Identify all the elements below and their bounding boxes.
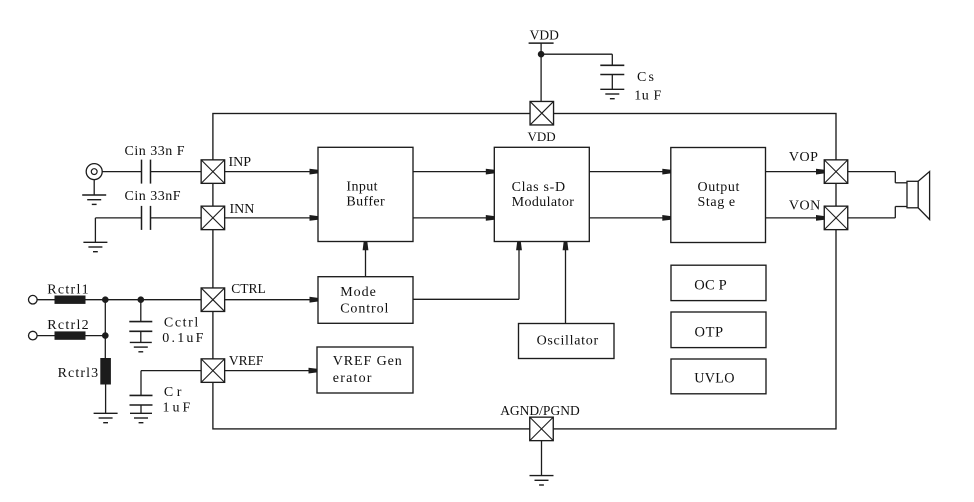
- svg-text:VREF Gen: VREF Gen: [333, 354, 403, 369]
- svg-text:Cin 33n F: Cin 33n F: [125, 144, 186, 159]
- svg-text:Oscillator: Oscillator: [537, 334, 599, 349]
- svg-text:VOP: VOP: [789, 150, 819, 165]
- svg-text:Modulator: Modulator: [512, 195, 575, 210]
- svg-text:Control: Control: [340, 302, 389, 317]
- svg-text:1u F: 1u F: [634, 89, 662, 104]
- svg-text:Cs: Cs: [637, 70, 656, 85]
- svg-text:VDD: VDD: [528, 129, 556, 144]
- svg-text:Output: Output: [698, 180, 741, 195]
- svg-text:Cr: Cr: [164, 385, 185, 400]
- svg-text:Clas s-D: Clas s-D: [512, 180, 566, 195]
- svg-text:Input: Input: [346, 180, 378, 195]
- svg-text:UVLO: UVLO: [694, 371, 735, 387]
- svg-text:erator: erator: [333, 371, 373, 386]
- svg-text:1uF: 1uF: [163, 401, 194, 416]
- svg-text:Stag e: Stag e: [698, 195, 736, 210]
- svg-text:VON: VON: [789, 199, 821, 214]
- svg-text:Rctrl3: Rctrl3: [58, 366, 100, 381]
- svg-text:Rctrl1: Rctrl1: [47, 282, 90, 297]
- svg-text:Buffer: Buffer: [346, 195, 385, 210]
- svg-text:INN: INN: [230, 202, 255, 217]
- svg-text:CTRL: CTRL: [231, 281, 266, 296]
- svg-text:Cin 33nF: Cin 33nF: [125, 189, 182, 204]
- svg-text:Cctrl: Cctrl: [164, 316, 200, 331]
- svg-text:0.1uF: 0.1uF: [162, 331, 205, 346]
- svg-text:Mode: Mode: [340, 285, 377, 300]
- svg-text:AGND/PGND: AGND/PGND: [500, 403, 580, 418]
- svg-text:INP: INP: [229, 155, 252, 170]
- svg-text:Rctrl2: Rctrl2: [47, 318, 90, 333]
- svg-text:VDD: VDD: [530, 27, 559, 42]
- svg-text:VREF: VREF: [229, 353, 264, 368]
- svg-text:OTP: OTP: [695, 325, 724, 341]
- svg-text:OC P: OC P: [694, 277, 727, 293]
